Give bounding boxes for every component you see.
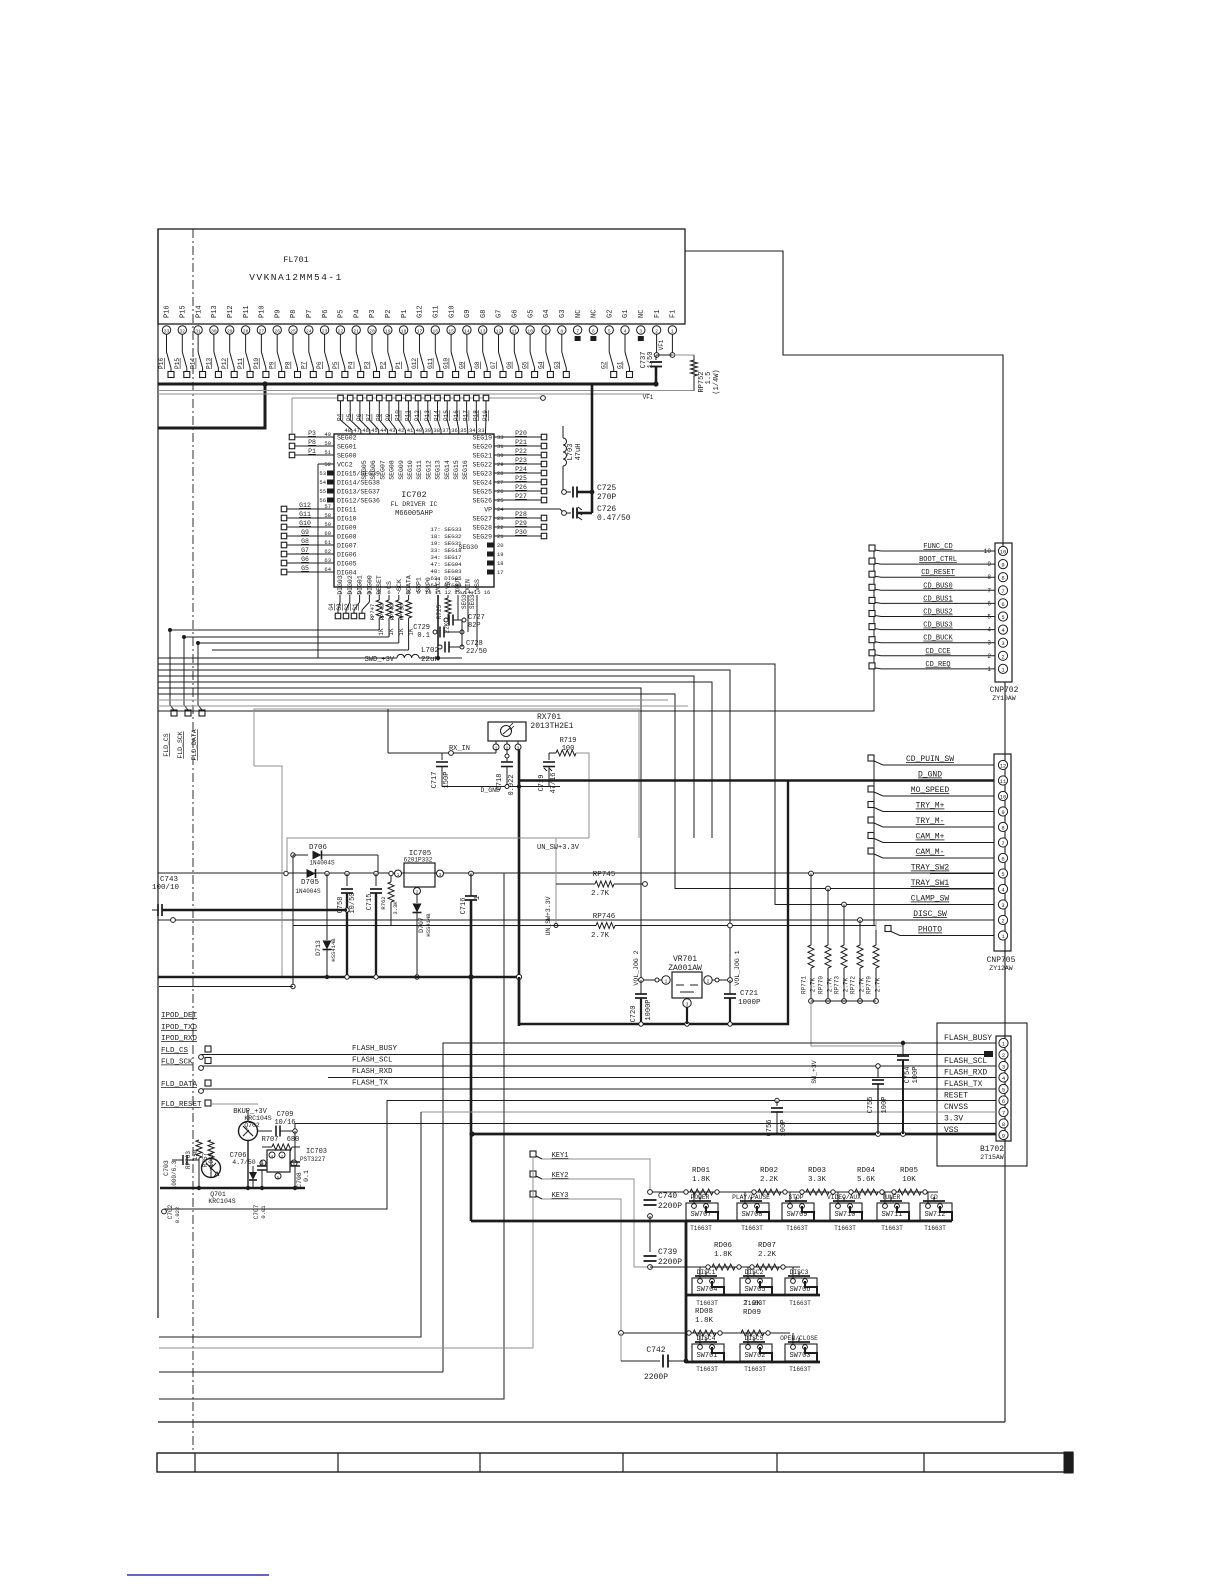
svg-text:C740: C740 <box>658 1192 677 1201</box>
svg-text:1.8K: 1.8K <box>692 1176 711 1184</box>
svg-text:CD: CD <box>930 1194 938 1201</box>
svg-text:P8: P8 <box>308 439 316 446</box>
FL701 pin 33 net P16 terminal <box>158 305 174 377</box>
switch SW705 DISC2 T1663T <box>740 1267 772 1307</box>
FL701 pin 2 F1 <box>652 310 661 358</box>
CNP705 pin 3 net CLAMP_SW <box>911 895 1008 910</box>
svg-text:G9: G9 <box>464 310 472 318</box>
svg-text:C755: C755 <box>867 1097 875 1114</box>
svg-text:SW703: SW703 <box>789 1352 810 1360</box>
FL701 pin 18 net P1 terminal <box>395 310 411 378</box>
B1702 pin 7 net CNVSS <box>944 1103 1008 1117</box>
FL701 pin 20 net P3 terminal <box>364 310 380 378</box>
svg-text:55: 55 <box>319 488 326 495</box>
svg-text:19: 19 <box>385 328 391 334</box>
transistor Q702 KRC104S <box>239 1115 272 1141</box>
resistor RP748 1K <box>184 595 395 637</box>
fold dash-dot line <box>192 229 194 1453</box>
svg-text:P11: P11 <box>237 358 244 369</box>
svg-text:P1: P1 <box>308 448 316 455</box>
svg-text:2: 2 <box>707 979 710 985</box>
svg-text:FL701: FL701 <box>283 255 309 265</box>
svg-text:18: 18 <box>497 560 504 567</box>
svg-text:SRP0: SRP0 <box>425 577 432 593</box>
svg-text:25: 25 <box>290 328 296 334</box>
svg-text:IPOD_DET: IPOD_DET <box>161 1012 198 1020</box>
CNP705 pin 11 net D_GND <box>520 771 1008 786</box>
svg-text:DISC4: DISC4 <box>697 1335 716 1342</box>
rows vertical ground link <box>685 1221 688 1362</box>
svg-text:STOP: STOP <box>788 1194 803 1201</box>
svg-text:1000/6.3: 1000/6.3 <box>171 1160 178 1189</box>
svg-text:0.022: 0.022 <box>174 1207 181 1224</box>
svg-text:C727: C727 <box>468 614 485 622</box>
svg-text:C703: C703 <box>163 1160 170 1176</box>
svg-text:10K: 10K <box>902 1176 916 1184</box>
svg-text:RP747: RP747 <box>369 604 376 621</box>
CNP702 pin 6 net CD_BUS1 <box>869 595 1008 608</box>
FL701 pin 22 net P5 terminal <box>332 310 348 378</box>
capacitor C737 1/50 <box>640 339 665 384</box>
B1702 pin 5 net FLASH_TX <box>944 1080 1008 1094</box>
svg-text:G10: G10 <box>443 358 450 369</box>
svg-text:34: 34 <box>469 427 476 434</box>
connector CNP705 body <box>994 754 1011 951</box>
svg-text:BOOT_CTRL: BOOT_CTRL <box>919 556 957 564</box>
switch SW711 TUNER T1663T <box>877 1192 909 1232</box>
svg-text:P8: P8 <box>285 361 292 369</box>
footer blue revision line <box>127 1574 269 1576</box>
svg-text:44: 44 <box>380 427 387 434</box>
svg-text:CD_BUS3: CD_BUS3 <box>923 622 952 630</box>
FL701 pin 29 net P12 terminal <box>221 305 237 377</box>
capacitor C716 1 <box>460 871 482 914</box>
svg-text:2.2K: 2.2K <box>743 1300 762 1308</box>
svg-text:P15: P15 <box>180 305 188 318</box>
svg-text:T1663T: T1663T <box>744 1366 766 1373</box>
svg-text:SEG16: SEG16 <box>462 460 469 480</box>
SW_+3V feed <box>811 1001 903 1084</box>
svg-text:P3: P3 <box>308 430 316 437</box>
IC702 bottom net G4 terminal <box>328 595 341 619</box>
IC702 pin 44 net P8 <box>375 395 387 434</box>
svg-text:XIN: XIN <box>464 579 471 591</box>
svg-text:C743: C743 <box>160 876 179 884</box>
svg-text:G7: G7 <box>301 547 309 554</box>
resistor RP747 1K <box>170 595 385 636</box>
svg-text:IC702: IC702 <box>401 490 427 500</box>
capacitor C718 0.022 <box>496 750 516 796</box>
IC702 pin 48 net P4 <box>337 395 353 434</box>
diode D710 <box>249 1166 257 1188</box>
svg-text:PLAY/PAUSE: PLAY/PAUSE <box>732 1194 770 1201</box>
svg-text:DIG00: DIG00 <box>366 575 373 595</box>
svg-text:P3: P3 <box>369 310 377 318</box>
svg-text:UN_SW+3.3V: UN_SW+3.3V <box>545 896 552 935</box>
svg-text:17: 17 <box>417 328 423 334</box>
svg-text:150P: 150P <box>443 772 451 789</box>
XOUT XIN stubs <box>458 595 477 647</box>
svg-text:2.7K: 2.7K <box>827 977 834 992</box>
bottom frame line <box>158 1421 1005 1423</box>
svg-text:RD05: RD05 <box>900 1167 919 1175</box>
UN_SW+3.3V label <box>537 844 580 852</box>
svg-text:VVKNA12MM54-1: VVKNA12MM54-1 <box>249 272 343 283</box>
svg-text:SRP1: SRP1 <box>415 577 422 593</box>
svg-text:VR: VR <box>445 581 452 589</box>
svg-text:48: 48 <box>344 427 351 434</box>
svg-text:29: 29 <box>227 328 233 334</box>
resistor RP752 1.5 (1/4W) <box>691 355 722 395</box>
svg-text:1K: 1K <box>398 628 405 636</box>
RX_IN label and wire <box>388 709 496 755</box>
svg-text:2.7K: 2.7K <box>859 977 866 992</box>
svg-text:P5: P5 <box>332 361 339 369</box>
svg-text:20: 20 <box>369 328 375 334</box>
FL701 pin 11 net G6 terminal <box>506 310 522 378</box>
svg-text:D707: D707 <box>418 917 425 933</box>
rail end node <box>541 396 546 401</box>
svg-text:1N4004S: 1N4004S <box>295 888 321 895</box>
IC702 pin 1 DIG03 label <box>337 575 344 596</box>
svg-text:SW706: SW706 <box>789 1286 810 1294</box>
svg-text:VOL_JOG 1: VOL_JOG 1 <box>734 950 741 985</box>
svg-text:SEG00: SEG00 <box>337 453 357 460</box>
svg-text:SW707: SW707 <box>690 1211 711 1219</box>
CNP702 pin 2 net CD_CCE <box>869 648 1008 661</box>
svg-text:DIG01: DIG01 <box>357 575 364 595</box>
svg-text:54: 54 <box>319 479 326 486</box>
svg-text:ZY12AW: ZY12AW <box>989 965 1013 972</box>
svg-text:FLASH_BUSY: FLASH_BUSY <box>352 1045 398 1053</box>
capacitor C756 100P <box>766 1098 788 1136</box>
svg-text:P10: P10 <box>253 358 260 369</box>
CNP705 square rail <box>873 761 875 854</box>
wire FLASH_BUSY pin1 <box>443 1041 996 1372</box>
svg-text:RD03: RD03 <box>808 1167 827 1175</box>
resistor R762 3.3K <box>380 871 399 925</box>
FL701 pin 16 net G11 terminal <box>427 305 443 377</box>
svg-text:SEG23: SEG23 <box>472 471 492 478</box>
svg-text:MO_SPEED: MO_SPEED <box>911 786 950 795</box>
FL701 pin 32 net P15 terminal <box>174 305 190 377</box>
svg-text:DISC_SW: DISC_SW <box>913 910 947 919</box>
svg-text:28: 28 <box>243 328 249 334</box>
svg-text:16: 16 <box>433 328 439 334</box>
svg-text:8: 8 <box>560 328 563 334</box>
wire TRAY_SW1 route <box>158 694 994 889</box>
label FLASH_BUSY <box>352 1045 398 1053</box>
svg-text:FUNC_CD: FUNC_CD <box>923 543 952 551</box>
svg-text:DIG15/SEG39: DIG15/SEG39 <box>337 471 380 478</box>
svg-text:G1: G1 <box>622 310 630 318</box>
svg-text:C726: C726 <box>597 505 616 514</box>
wire KEY chain to left <box>159 1347 533 1349</box>
svg-text:2.7K: 2.7K <box>591 932 610 940</box>
IC702 part number M66005AHP <box>395 510 433 518</box>
svg-text:P23: P23 <box>515 457 527 464</box>
svg-text:3: 3 <box>1001 640 1004 647</box>
svg-text:C742: C742 <box>646 1346 665 1355</box>
svg-text:TRY_M-: TRY_M- <box>916 817 945 826</box>
svg-text:11: 11 <box>1000 778 1007 785</box>
label FLASH_TX <box>352 1080 389 1088</box>
svg-text:1: 1 <box>474 896 482 900</box>
svg-text:G6: G6 <box>512 310 520 318</box>
svg-text:G9: G9 <box>301 529 309 536</box>
svg-text:P13: P13 <box>211 305 219 318</box>
CNP702 pin 7 net CD_BUS0 <box>869 582 1008 595</box>
svg-text:HSS414B: HSS414B <box>425 913 432 937</box>
CNP705 pin 9 net TRY_M+ <box>868 802 1008 817</box>
IC702 pins 17-20 SEG30 SEG34 SEG35 <box>458 542 503 609</box>
svg-text:FLASH_TX: FLASH_TX <box>944 1080 983 1089</box>
svg-text:G2: G2 <box>606 310 614 318</box>
svg-text:T1663T: T1663T <box>789 1300 811 1307</box>
FL701 pin 13 net G8 terminal <box>474 310 490 378</box>
svg-text:SW705: SW705 <box>744 1286 765 1294</box>
B1702 pin 6 net RESET <box>944 1092 1008 1106</box>
svg-text:43: 43 <box>389 427 396 434</box>
svg-text:3: 3 <box>439 872 442 878</box>
wire RESET route <box>162 1101 996 1214</box>
svg-text:DIG13/SEG37: DIG13/SEG37 <box>337 489 380 496</box>
VOL_JOG_1 label <box>734 950 741 985</box>
svg-text:OPEN/CLOSE: OPEN/CLOSE <box>780 1335 818 1342</box>
svg-text:Q701: Q701 <box>210 1191 226 1198</box>
second gray bus line <box>158 393 650 395</box>
main ground bus <box>158 974 522 979</box>
svg-text:P2: P2 <box>385 310 393 318</box>
svg-text:10: 10 <box>527 328 533 334</box>
svg-text:VCC1: VCC1 <box>435 577 442 593</box>
svg-text:VIDEO/AUX: VIDEO/AUX <box>827 1194 861 1201</box>
IC702 pin 26 SEG25 net P26 <box>472 484 546 496</box>
svg-text:0.01: 0.01 <box>260 1205 267 1219</box>
svg-text:G8: G8 <box>474 361 481 369</box>
svg-text:NC: NC <box>575 310 583 318</box>
svg-text:60: 60 <box>324 530 331 537</box>
svg-text:D_GND: D_GND <box>918 771 942 780</box>
net FLD_SCK drop terminal <box>177 635 191 759</box>
IC702 pin 11 VCC1 label <box>435 577 442 596</box>
svg-text:53: 53 <box>319 470 326 477</box>
IC702 pin 24 VP <box>484 506 564 514</box>
IC702 pin 22 SEG28 net P29 <box>472 520 546 532</box>
svg-text:D_GND: D_GND <box>480 787 500 794</box>
IC702 pin 50 SEG01 net P8 <box>289 439 356 451</box>
svg-text:2013TH2E1: 2013TH2E1 <box>530 722 573 731</box>
svg-text:39: 39 <box>424 427 431 434</box>
svg-text:50: 50 <box>324 440 331 447</box>
FL701 pin 9 net G4 terminal <box>537 310 553 378</box>
svg-text:G3: G3 <box>559 310 567 318</box>
svg-text:T1663T: T1663T <box>881 1225 903 1232</box>
svg-text:P20: P20 <box>515 430 527 437</box>
label FLASH_SCL <box>352 1057 393 1065</box>
B1702 pin 2 key <box>984 1050 1008 1059</box>
svg-text:0.1: 0.1 <box>303 1170 310 1182</box>
KEY chain vertical <box>532 1157 534 1348</box>
IC702 pin 29 SEG22 net P23 <box>472 457 546 469</box>
wire DISC_SW long <box>158 918 994 923</box>
capacitor C719 47/16 <box>538 753 558 794</box>
backup thick bus <box>160 1186 305 1190</box>
IC702 pin 30 SEG21 net P22 <box>472 448 546 460</box>
FL701 pin 14 net G9 terminal <box>458 310 474 378</box>
resistor RD03 3.3K <box>800 1167 835 1195</box>
svg-text:3: 3 <box>1002 1064 1005 1071</box>
svg-text:CD_BUS1: CD_BUS1 <box>923 595 952 603</box>
svg-text:1K: 1K <box>388 628 395 636</box>
svg-text:1000P: 1000P <box>645 999 653 1020</box>
svg-text:DIG12/SEG36: DIG12/SEG36 <box>337 498 380 505</box>
VF1 net label <box>643 394 654 401</box>
svg-text:P27: P27 <box>515 493 527 500</box>
IC702 pin 36 net P16 <box>451 395 460 434</box>
svg-text:12: 12 <box>496 328 502 334</box>
svg-text:22uH: 22uH <box>421 656 439 664</box>
IC702 pin 54 DIG14/SEG38 <box>319 479 380 487</box>
svg-text:XOUT: XOUT <box>455 577 462 593</box>
svg-text:CD_RESET: CD_RESET <box>921 569 955 577</box>
svg-text:G3: G3 <box>553 361 560 369</box>
svg-text:G6: G6 <box>506 361 513 369</box>
svg-text:33: 33 <box>478 427 485 434</box>
svg-text:1000P: 1000P <box>738 999 761 1007</box>
IC702 pin 14 XIN label <box>464 579 471 596</box>
svg-text:M66005AHP: M66005AHP <box>395 510 433 518</box>
svg-text:DISC5: DISC5 <box>745 1335 764 1342</box>
svg-text:RD04: RD04 <box>857 1167 876 1175</box>
svg-text:1.8K: 1.8K <box>714 1251 733 1259</box>
svg-text:3.3K: 3.3K <box>392 901 399 915</box>
wire FLD_CS / FLASH_BUSY <box>199 1055 984 1060</box>
svg-text:16: 16 <box>484 589 491 596</box>
CNP705 pin 4 net TRAY_SW1 <box>911 879 1008 894</box>
svg-text:P8: P8 <box>290 310 298 318</box>
svg-text:G3: G3 <box>336 603 343 611</box>
svg-text:RESET: RESET <box>944 1092 968 1101</box>
svg-text:CD_PUIN_SW: CD_PUIN_SW <box>906 755 954 764</box>
svg-text:TRAY_SW1: TRAY_SW1 <box>911 879 950 888</box>
svg-text:RP771: RP771 <box>801 976 808 994</box>
svg-text:1N4004S: 1N4004S <box>309 860 335 867</box>
capacitor C708 0.1 <box>290 1131 310 1188</box>
svg-text:RD02: RD02 <box>760 1167 778 1175</box>
D_GND local bus <box>442 784 560 794</box>
svg-text:CNP705: CNP705 <box>987 956 1016 965</box>
svg-text:0.022: 0.022 <box>508 774 516 795</box>
diode D705 1N4004S <box>284 869 321 895</box>
svg-text:SEG14: SEG14 <box>444 460 451 480</box>
svg-text:SEG10: SEG10 <box>407 460 414 480</box>
B1702 type 2T15AW <box>980 1154 1004 1161</box>
CNP702 refdes <box>990 686 1019 695</box>
B1702 refdes <box>980 1145 1004 1154</box>
IC702 pin 4 DIG00 label <box>366 575 373 596</box>
capacitor C706 4.7/50 <box>230 1152 267 1188</box>
svg-text:P6: P6 <box>322 310 330 318</box>
svg-text:42: 42 <box>398 427 405 434</box>
svg-text:P30: P30 <box>515 529 527 536</box>
svg-text:680: 680 <box>287 1136 300 1144</box>
connector B1702 outer box <box>937 1023 1027 1166</box>
svg-text:19: SEG31: 19: SEG31 <box>430 540 462 547</box>
svg-text:CD_CCE: CD_CCE <box>925 648 950 656</box>
svg-text:P9: P9 <box>269 361 276 369</box>
svg-text:7: 7 <box>1002 1110 1005 1117</box>
svg-text:L703: L703 <box>567 444 575 461</box>
IC702 pin 39 net P13 <box>424 395 432 434</box>
svg-text:22/50: 22/50 <box>466 648 487 656</box>
VF1 filament gray line <box>158 355 694 391</box>
svg-text:RX701: RX701 <box>537 713 561 722</box>
inductor L702 22uH and SWD_+3V <box>158 647 462 664</box>
resistor RP749 1K <box>198 595 405 643</box>
svg-text:P12: P12 <box>221 358 228 369</box>
svg-text:5.6K: 5.6K <box>857 1176 876 1184</box>
switch SW709 STOP T1663T <box>782 1192 814 1232</box>
svg-text:TUNER: TUNER <box>882 1194 901 1201</box>
svg-text:2.7K: 2.7K <box>875 977 882 992</box>
svg-text:7: 7 <box>1001 840 1004 847</box>
svg-text:P4: P4 <box>353 310 361 318</box>
resistor RD05 10K <box>892 1167 927 1195</box>
resistor R757 100K <box>202 1140 215 1177</box>
svg-text:2.7K: 2.7K <box>591 890 610 898</box>
svg-text:G7: G7 <box>490 361 497 369</box>
svg-text:P7: P7 <box>300 361 307 369</box>
svg-text:ZA001AW: ZA001AW <box>668 964 702 973</box>
IC702 pin 52 VCC2 <box>318 461 353 658</box>
FL701 pin 3 NC <box>637 310 646 341</box>
svg-text:G5: G5 <box>527 310 535 318</box>
resistor RP746 2.7K <box>293 913 876 940</box>
svg-text:C719: C719 <box>538 775 546 792</box>
svg-text:SDATA: SDATA <box>406 575 413 595</box>
svg-text:D706: D706 <box>309 844 328 852</box>
svg-text:T1663T: T1663T <box>741 1225 763 1232</box>
switch SW702 DISC5 T1663T <box>740 1333 772 1373</box>
B1702 pin 4 net FLASH_RXD <box>944 1069 1008 1083</box>
svg-text:DISC3: DISC3 <box>790 1269 809 1276</box>
svg-text:C721: C721 <box>740 990 759 998</box>
IC702 pin 2 DIG02 label <box>347 575 354 596</box>
svg-text:12: 12 <box>444 589 451 596</box>
CNP702 type ZY10AW <box>992 695 1016 702</box>
resistor RP771 2.7K <box>801 871 817 1003</box>
IC702 pin 61 DIG07 net G8 <box>281 538 356 550</box>
svg-text:P1: P1 <box>401 310 409 318</box>
svg-text:21: 21 <box>353 328 359 334</box>
CNP705 pin 7 net CAM_M+ <box>868 833 1008 848</box>
svg-text:G12: G12 <box>417 305 425 318</box>
FL701 pin 15 net G10 terminal <box>443 305 459 377</box>
svg-text:SW704: SW704 <box>696 1286 717 1294</box>
IC702 pin 35 net P17 <box>460 395 470 434</box>
IC702 pin 40 net P12 <box>414 395 423 434</box>
capacitor C702 label <box>167 1204 181 1223</box>
svg-text:38: 38 <box>433 427 440 434</box>
svg-text:35: 35 <box>460 427 467 434</box>
svg-text:F1: F1 <box>670 310 678 318</box>
capacitor C758 10/50 <box>337 871 357 977</box>
switch SW706 DISC3 T1663T <box>785 1267 817 1307</box>
svg-text:23: 23 <box>322 328 328 334</box>
svg-text:5: 5 <box>1002 1087 1005 1094</box>
resistor R707 680 <box>262 1136 300 1150</box>
